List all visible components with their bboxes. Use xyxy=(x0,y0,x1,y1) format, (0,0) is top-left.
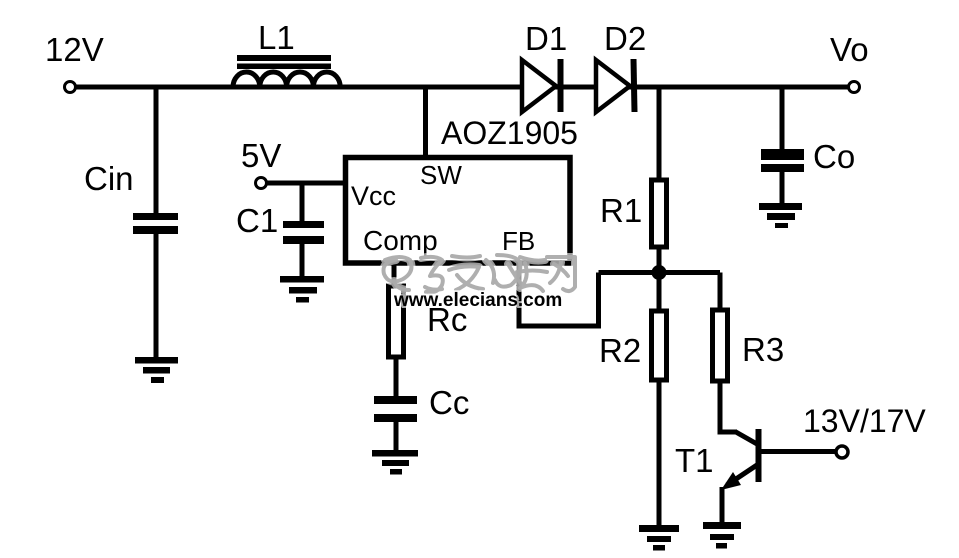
resistor R3 xyxy=(713,310,728,381)
wire FB pin routing xyxy=(517,263,601,329)
svg-text:T1: T1 xyxy=(675,442,714,479)
ground (Cin) xyxy=(135,357,178,383)
emitter arrowhead xyxy=(721,472,741,490)
node 13V/17V terminal xyxy=(836,446,848,458)
wire R3 to T1 collector xyxy=(720,381,737,432)
collector diagonal xyxy=(735,432,757,445)
wire main top rail xyxy=(76,85,848,90)
wire C1 branch xyxy=(300,183,305,222)
ground (T1) xyxy=(703,522,741,549)
capacitor C1 xyxy=(283,221,324,244)
svg-text:AOZ1905: AOZ1905 xyxy=(441,115,578,151)
ground (C1) xyxy=(280,276,324,303)
svg-text:Cc: Cc xyxy=(429,384,469,421)
wire Vcc pin xyxy=(267,181,345,186)
capacitor Co xyxy=(761,149,804,172)
wire Co to ground xyxy=(780,172,785,204)
svg-text:R2: R2 xyxy=(599,332,641,369)
watermark chinese characters xyxy=(384,255,576,292)
svg-text:5V: 5V xyxy=(241,137,281,174)
node Vo output terminal xyxy=(849,82,860,93)
svg-text:Cin: Cin xyxy=(84,160,134,197)
node A junction dot xyxy=(652,265,667,280)
emitter diagonal xyxy=(727,465,757,485)
svg-text:FB: FB xyxy=(502,226,535,256)
svg-text:SW: SW xyxy=(420,160,462,190)
wire R1 to node xyxy=(657,247,662,273)
svg-text:13V/17V: 13V/17V xyxy=(803,403,926,439)
capacitor Cin xyxy=(133,213,178,234)
svg-text:www.elecians.com: www.elecians.com xyxy=(393,290,562,311)
wire C1 to ground xyxy=(300,244,305,277)
svg-text:C1: C1 xyxy=(236,202,278,239)
wire R3 branch xyxy=(718,273,723,312)
svg-text:D1: D1 xyxy=(525,20,567,57)
ground (Co) xyxy=(759,203,802,228)
svg-text:Comp: Comp xyxy=(363,225,438,256)
svg-text:L1: L1 xyxy=(258,19,295,56)
watermark url text xyxy=(393,290,562,311)
wire R1 branch xyxy=(657,85,662,181)
ground (R2) xyxy=(639,525,679,551)
resistor R2 xyxy=(652,311,667,380)
svg-text:12V: 12V xyxy=(45,31,104,68)
base lead xyxy=(759,449,836,454)
ground (Cc) xyxy=(372,450,418,475)
wire Cc to ground xyxy=(394,422,399,451)
wire Comp pin down xyxy=(392,263,397,287)
svg-text:R3: R3 xyxy=(742,331,784,368)
wire SW pin xyxy=(423,87,428,158)
transistor T1 xyxy=(721,429,836,523)
op-amp U1 AOZ1905 box xyxy=(346,158,571,264)
diode D1 xyxy=(522,59,561,112)
wire Rc to Cc xyxy=(394,357,399,397)
svg-text:Vo: Vo xyxy=(830,31,869,68)
wire R2 to ground xyxy=(657,380,662,526)
capacitor Cc xyxy=(374,396,417,422)
wire R2 branch xyxy=(657,273,662,313)
node 12V input terminal xyxy=(65,82,76,93)
base bar xyxy=(756,429,762,482)
emitter wire to ground xyxy=(720,487,725,523)
svg-text:D2: D2 xyxy=(604,20,646,57)
resistor Rc xyxy=(389,286,404,357)
diode D2 xyxy=(596,59,635,112)
svg-text:Co: Co xyxy=(813,138,855,175)
node 5V terminal xyxy=(256,178,267,189)
svg-text:Vcc: Vcc xyxy=(351,181,396,211)
wire Co branch xyxy=(780,85,785,150)
resistor R1 xyxy=(652,180,667,247)
inductor L1 xyxy=(233,55,340,87)
svg-text:R1: R1 xyxy=(600,192,642,229)
wire node A horizontal xyxy=(599,270,721,275)
wire Cin branch xyxy=(154,85,159,215)
wire Cin to ground xyxy=(154,234,159,358)
